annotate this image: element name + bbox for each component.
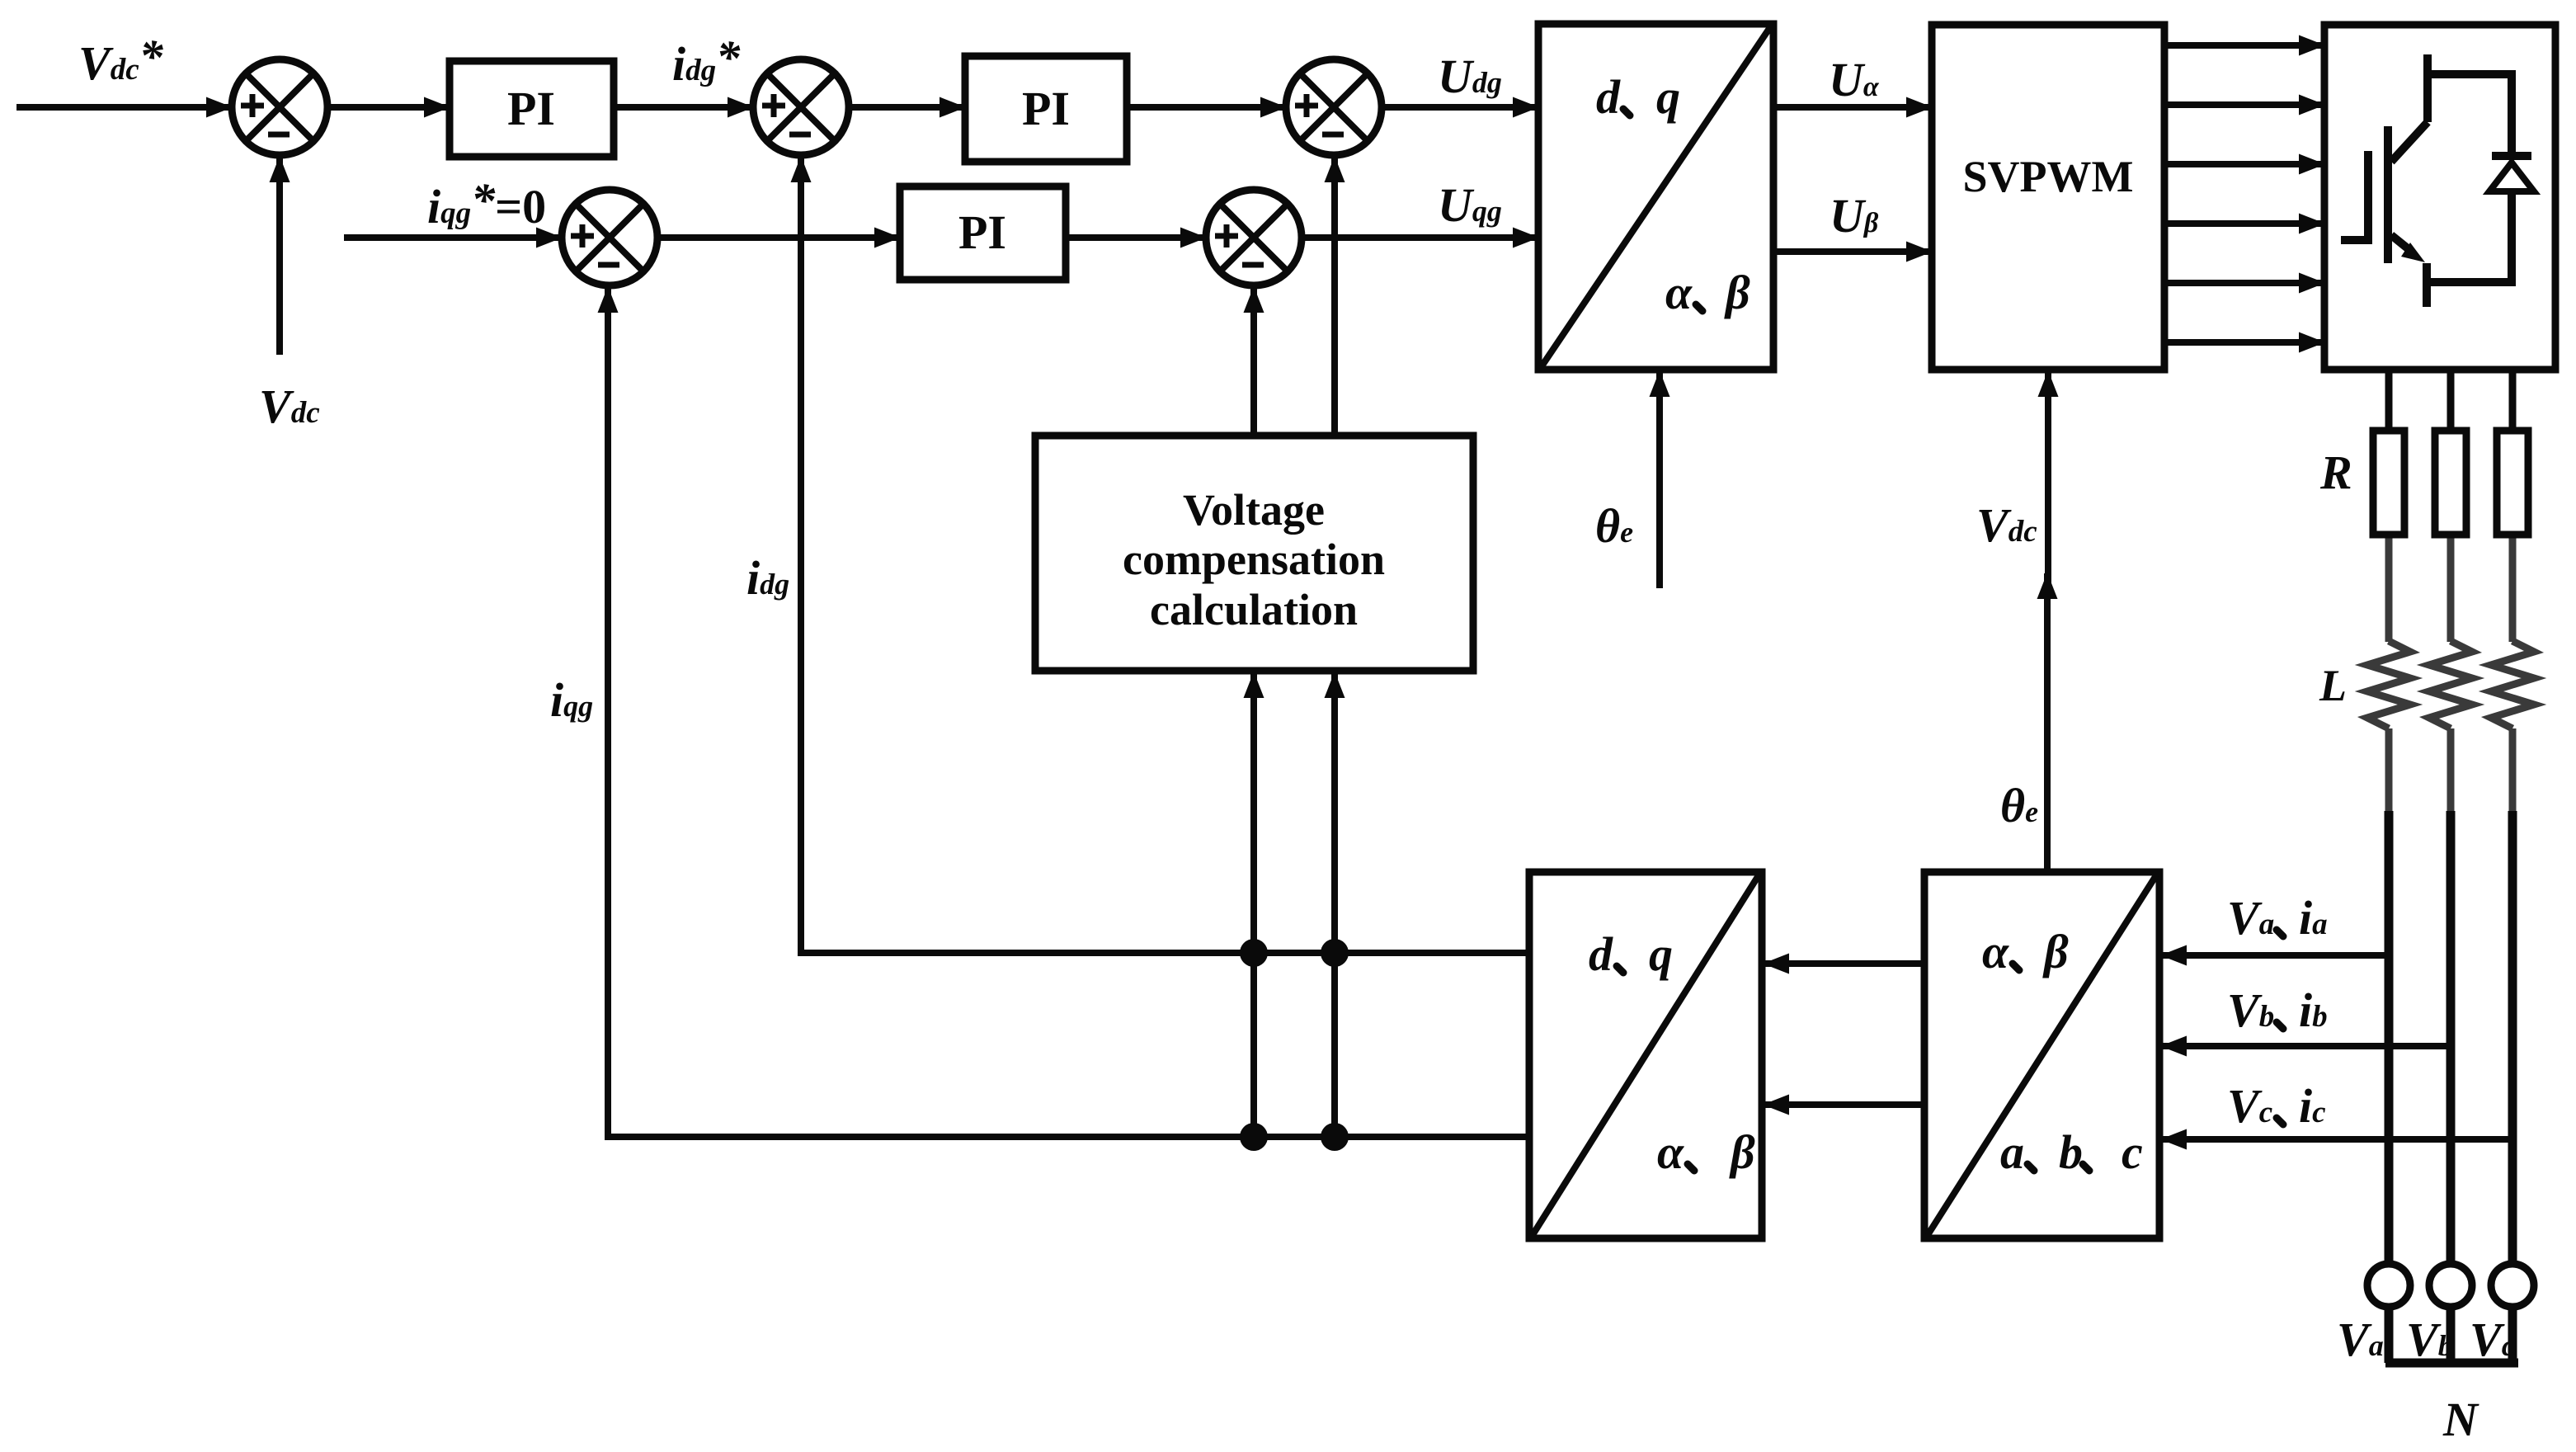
svg-text:calculation: calculation xyxy=(1150,585,1358,634)
svg-text:α: α xyxy=(1665,266,1693,319)
svg-text:compensation: compensation xyxy=(1123,535,1385,584)
svg-text:d: d xyxy=(1589,927,1613,981)
svg-text:d: d xyxy=(1596,70,1621,124)
svg-text:N: N xyxy=(2442,1393,2479,1446)
svg-text:PI: PI xyxy=(507,82,555,135)
svg-text:β: β xyxy=(2042,925,2069,978)
svg-text:b: b xyxy=(2059,1125,2083,1179)
svg-text:PI: PI xyxy=(1022,82,1070,135)
svg-text:a: a xyxy=(2000,1125,2024,1179)
svg-text:Voltage: Voltage xyxy=(1183,485,1325,535)
svg-text:β: β xyxy=(1729,1125,1755,1179)
svg-text:α: α xyxy=(1982,925,2009,978)
svg-text:q: q xyxy=(1649,927,1673,981)
svg-text:L: L xyxy=(2319,661,2347,710)
svg-text:R: R xyxy=(2319,445,2352,499)
svg-text:PI: PI xyxy=(958,205,1006,259)
svg-text:α: α xyxy=(1657,1125,1684,1179)
svg-text:c: c xyxy=(2122,1125,2143,1179)
svg-text:q: q xyxy=(1656,70,1680,124)
svg-text:β: β xyxy=(1724,266,1750,319)
svg-text:SVPWM: SVPWM xyxy=(1963,152,2134,201)
